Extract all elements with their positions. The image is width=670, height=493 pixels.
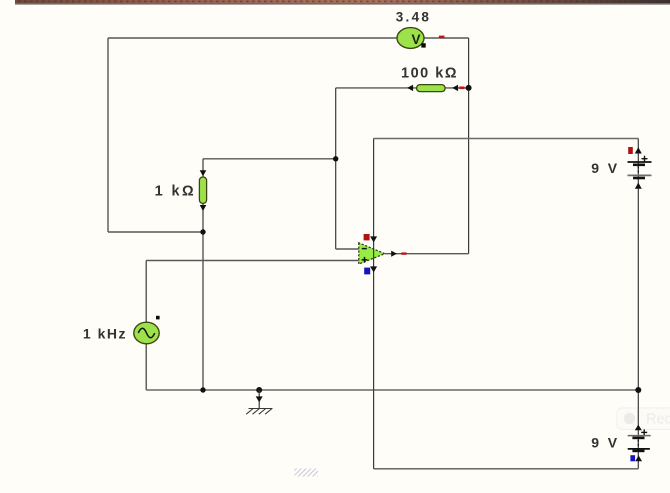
svg-text:1 kΩ: 1 kΩ (155, 184, 196, 200)
svg-text:9 V: 9 V (591, 160, 619, 176)
wire: left loop bottom horizontal to node (108, 231, 203, 233)
wire: op-amp plus input horizontal (146, 260, 359, 262)
wire: horizontal branch to 1k resistor top (203, 158, 336, 160)
wire: left loop vertical (107, 38, 109, 232)
node: feedback junction at 100k right (466, 85, 472, 91)
node: 1k bottom junction (200, 229, 205, 234)
source V1 1 kHz sine (83, 316, 160, 344)
resistor R1 100 kOhm (401, 66, 464, 92)
wire: bottom ground rail horizontal (146, 389, 638, 391)
wire: right battery column vertical (637, 139, 639, 469)
wire: 1k resistor vertical branch (202, 159, 204, 232)
wire: right vertical from voltmeter to output (468, 38, 470, 254)
wire: op-amp supply vertical through symbol (373, 139, 375, 469)
svg-text:9 V: 9 V (591, 435, 619, 451)
svg-text:1 kHz: 1 kHz (83, 325, 127, 341)
node: ground symbol junction (256, 387, 262, 393)
wire: top-left loop horizontal (voltmeter row) (108, 37, 469, 39)
hatched selection mark bottom center (295, 469, 319, 477)
node: ground rail junction left (200, 387, 205, 392)
watermark badge bottom right (617, 408, 670, 430)
wire: vertical node to ground rail (202, 232, 204, 390)
resistor R2 1 kOhm (155, 170, 207, 211)
wire: op-amp output horizontal (385, 253, 469, 255)
wire: 100k resistor row horizontal (336, 87, 469, 89)
voltmeter U2 reading 3.48 (396, 10, 445, 49)
svg-text:100 kΩ: 100 kΩ (401, 66, 458, 82)
wire: source vertical (145, 261, 147, 391)
node: battery column junction (635, 387, 641, 393)
battery B1 9V (top) (591, 147, 651, 189)
svg-text:Rec: Rec (646, 412, 670, 428)
op-amp V- pin marker (364, 266, 377, 274)
battery B2 9V (bottom) (591, 425, 650, 462)
svg-text:3.48: 3.48 (396, 10, 431, 25)
wire: top supply rail horizontal (374, 138, 639, 140)
svg-text:V: V (411, 32, 420, 47)
op-amp V+ pin marker (364, 234, 378, 243)
op-amp output arrow and probe mark (391, 251, 406, 257)
op-amp U1 (359, 243, 385, 264)
node: 1k top branch junction (333, 156, 338, 161)
wire: vertical to op-amp inverting input (335, 88, 337, 249)
wire: bottom supply rail horizontal (374, 468, 639, 470)
ground (246, 390, 272, 414)
wire: horizontal into op-amp minus (336, 248, 359, 250)
